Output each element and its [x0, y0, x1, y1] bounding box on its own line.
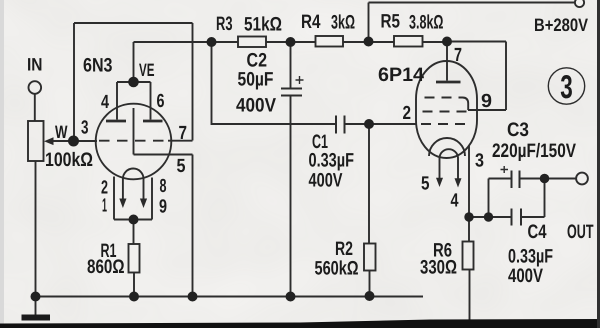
svg-text:OUT: OUT	[567, 221, 594, 243]
svg-text:50µF: 50µF	[238, 69, 274, 91]
svg-text:5: 5	[177, 156, 186, 177]
svg-text:220µF/150V: 220µF/150V	[492, 140, 576, 162]
svg-text:400V: 400V	[236, 95, 276, 117]
svg-text:9: 9	[481, 91, 492, 112]
svg-text:4: 4	[451, 191, 459, 212]
svg-text:5: 5	[421, 174, 430, 195]
svg-text:3.8kΩ: 3.8kΩ	[409, 12, 444, 34]
svg-text:8: 8	[160, 176, 167, 197]
svg-text:R5: R5	[381, 11, 401, 33]
svg-text:6P14: 6P14	[378, 64, 424, 86]
svg-text:B+280V: B+280V	[534, 15, 588, 35]
svg-text:7: 7	[179, 123, 188, 144]
svg-text:3kΩ: 3kΩ	[331, 12, 355, 34]
svg-text:560kΩ: 560kΩ	[315, 258, 359, 280]
svg-text:860Ω: 860Ω	[87, 256, 125, 278]
svg-text:6N3: 6N3	[83, 55, 113, 77]
svg-text:R3: R3	[216, 13, 233, 35]
svg-text:2: 2	[403, 103, 412, 124]
svg-text:7: 7	[454, 45, 462, 66]
svg-text:3: 3	[560, 68, 573, 105]
svg-text:VE: VE	[139, 60, 155, 80]
svg-text:C3: C3	[507, 119, 529, 141]
svg-text:0.33µF: 0.33µF	[309, 150, 355, 172]
svg-text:IN: IN	[27, 55, 43, 75]
svg-text:400V: 400V	[309, 170, 343, 192]
svg-text:100kΩ: 100kΩ	[45, 149, 93, 171]
svg-text:C4: C4	[528, 221, 547, 243]
svg-text:3: 3	[475, 151, 484, 172]
svg-text:R4: R4	[301, 11, 321, 33]
svg-text:3: 3	[81, 118, 89, 139]
svg-text:4: 4	[101, 92, 109, 113]
svg-text:330Ω: 330Ω	[420, 257, 457, 279]
svg-text:6: 6	[157, 91, 165, 112]
svg-text:1: 1	[102, 196, 107, 217]
svg-text:W: W	[55, 122, 68, 142]
svg-text:51kΩ: 51kΩ	[244, 14, 282, 36]
svg-text:400V: 400V	[508, 265, 543, 287]
svg-text:9: 9	[159, 197, 167, 218]
